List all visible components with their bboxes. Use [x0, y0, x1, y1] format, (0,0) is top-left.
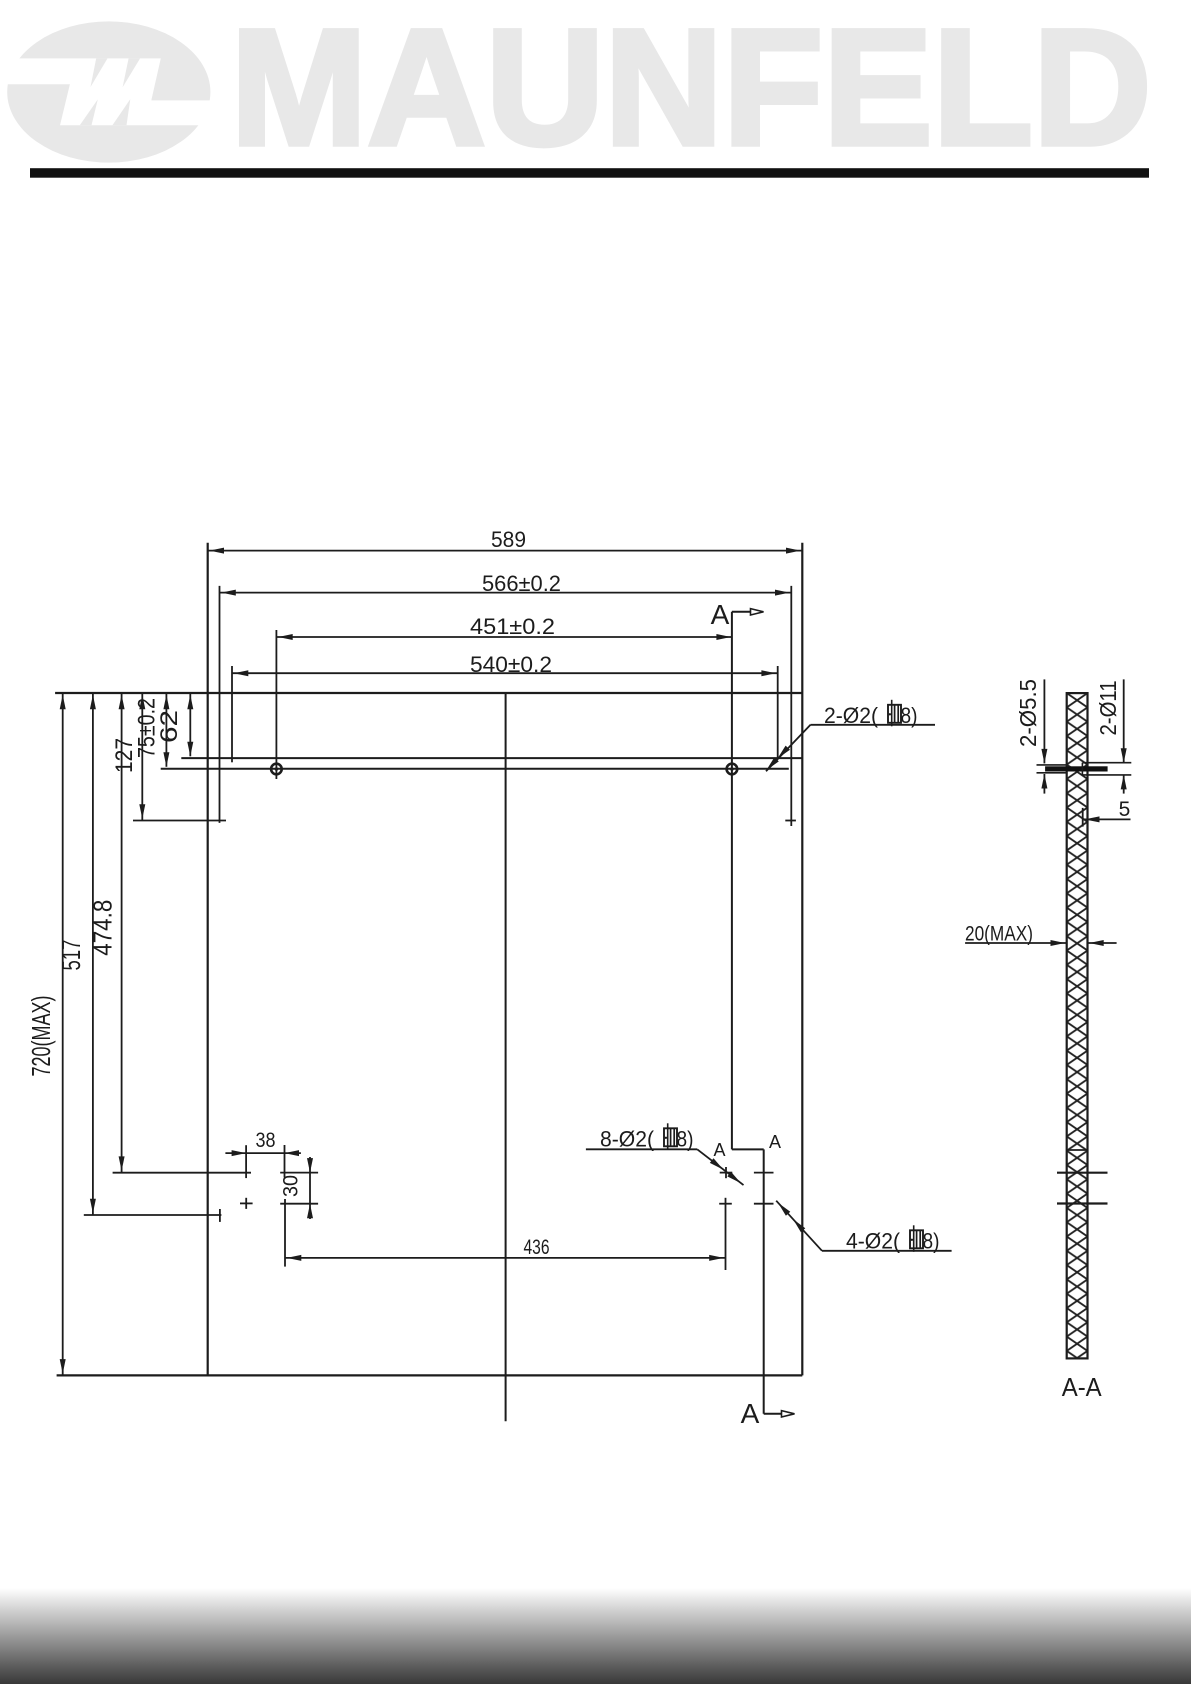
svg-text:62: 62 — [156, 710, 183, 743]
svg-text:8-Ø2(: 8-Ø2( — [600, 1127, 655, 1152]
svg-text:A: A — [741, 1398, 760, 1429]
dim 2-Ø5.5 — [1043, 679, 1045, 763]
svg-text:30: 30 — [280, 1175, 303, 1197]
svg-text:20(MAX): 20(MAX) — [965, 923, 1033, 946]
dim 5 — [1082, 808, 1084, 827]
svg-text:589: 589 — [491, 527, 526, 552]
section arrow top — [732, 611, 753, 613]
svg-text:436: 436 — [524, 1236, 550, 1259]
dim 436 — [285, 1257, 726, 1259]
hole cross at (726,1172.6) — [720, 1172, 733, 1174]
dim 474.8 — [121, 693, 123, 1173]
panel top edge (extended left for dims) — [55, 692, 802, 694]
Maunfeld logo: ellipse — [0, 21, 215, 162]
svg-text:2-Ø5.5: 2-Ø5.5 — [1015, 679, 1041, 747]
ext line 540 left — [231, 666, 233, 762]
ext 517 / hole row — [84, 1214, 222, 1216]
slot top edge / 62 ext line — [181, 757, 802, 759]
ext line 566 right — [790, 586, 792, 826]
svg-text:517: 517 — [56, 940, 86, 971]
tick hole row bottom — [280, 1203, 318, 1205]
leader 2-Ø2 — [766, 725, 811, 772]
svg-text:5: 5 — [1119, 798, 1131, 821]
slot hole right circle — [727, 764, 738, 775]
panel right edge (extends up as 589 ext) — [801, 543, 803, 1376]
svg-text:MAUNFELD: MAUNFELD — [231, 0, 1152, 179]
ext 436 left / 30 ext — [284, 1199, 286, 1267]
panel left edge (extends up as 589 ext) — [207, 543, 209, 1376]
hole tick right on 127 row — [785, 820, 796, 822]
dim 127 — [141, 693, 143, 821]
dim 38 — [225, 1152, 301, 1154]
slot hole left circle — [271, 764, 282, 775]
logo M wedge 1 — [91, 58, 108, 87]
svg-text:A: A — [713, 1140, 725, 1160]
svg-text:A: A — [769, 1132, 781, 1152]
dim 62 — [189, 693, 191, 756]
ext 436 right / hole col — [725, 1198, 727, 1270]
hole ticks on section line — [754, 1172, 774, 1174]
svg-text:8): 8) — [677, 1127, 694, 1152]
ext 474.8 / hole row — [113, 1172, 251, 1174]
section cut line A-A — [731, 612, 733, 1150]
dim 589 — [208, 550, 803, 552]
dim 540±0.2 — [232, 672, 778, 674]
header rule — [30, 168, 1149, 178]
ext line 451 left (through circle) — [275, 630, 277, 779]
vertical centerline — [505, 693, 507, 1421]
slot hole centerline / 75 ext line — [161, 768, 789, 770]
logo M rising wedge 3 — [80, 99, 98, 125]
leader 8-Ø2 — [697, 1149, 743, 1185]
hole cross at (246,1203) — [240, 1202, 253, 1204]
svg-text:4-Ø2(: 4-Ø2( — [846, 1229, 901, 1254]
svg-text:8): 8) — [923, 1229, 940, 1254]
ext line 566 left — [219, 586, 221, 823]
svg-text:38: 38 — [256, 1129, 276, 1152]
svg-text:2-Ø11: 2-Ø11 — [1095, 681, 1121, 736]
ext line 540 right — [777, 666, 779, 758]
svg-text:451±0.2: 451±0.2 — [470, 614, 555, 639]
hole cross right on 436 ext — [719, 1203, 732, 1205]
dim 30 — [309, 1157, 311, 1219]
svg-text:474.8: 474.8 — [87, 900, 117, 956]
svg-text:540±0.2: 540±0.2 — [470, 652, 552, 677]
Ø11 bracket right — [1082, 762, 1131, 764]
leader 4-Ø2 — [776, 1201, 822, 1251]
hole row ticks across bar — [1057, 1172, 1108, 1174]
dim 75±0.2 — [165, 693, 167, 767]
screw section thick bar — [1045, 766, 1108, 771]
dim 720(MAX) — [62, 693, 64, 1375]
tick hole row top — [280, 1172, 318, 1174]
section jog line across bar — [1067, 1149, 1088, 1151]
panel bottom edge (extended left) — [57, 1374, 803, 1376]
tick hole col left — [245, 1145, 247, 1178]
svg-text:A-A: A-A — [1062, 1372, 1103, 1402]
svg-text:A: A — [711, 599, 730, 630]
svg-text:566±0.2: 566±0.2 — [482, 571, 561, 596]
dim 2-Ø11 — [1123, 679, 1125, 762]
hole tick on 517 ext — [219, 1209, 221, 1222]
logo white staircase cut — [0, 58, 215, 125]
dim 566±0.2 — [220, 592, 792, 594]
tick hole col right — [284, 1145, 286, 1178]
dim 517 — [92, 693, 94, 1215]
Ø5.5 ext lines left — [1037, 764, 1068, 766]
section arrow bottom — [764, 1413, 784, 1415]
logo M rising wedge 4 — [112, 99, 130, 125]
dim 451±0.2 — [276, 636, 732, 638]
svg-text:720(MAX): 720(MAX) — [26, 996, 56, 1077]
ext 127 / hole row top — [133, 820, 226, 822]
logo M wedge 2 — [123, 58, 141, 87]
